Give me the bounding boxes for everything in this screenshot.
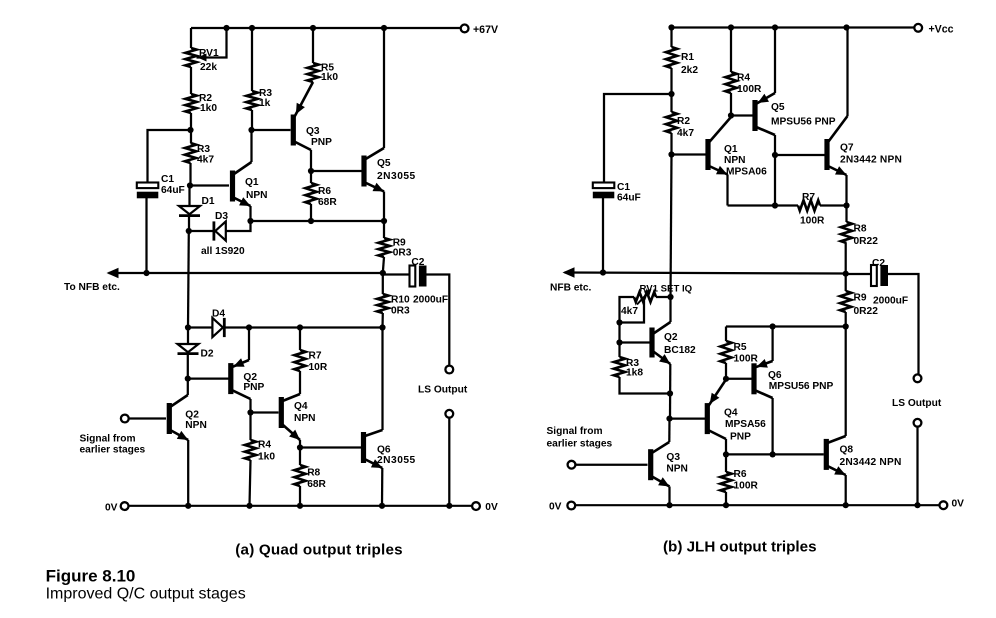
label 4k7 (RV1)	[621, 306, 638, 317]
RV1 wiper arrow (b)	[637, 289, 652, 305]
svg-text:LS Output: LS Output	[418, 385, 468, 396]
label 2N3442 NPN (Q8)	[840, 457, 902, 468]
terminal 0V right (a)	[472, 502, 480, 510]
node: Q7 emitter / R8 / R7	[843, 202, 849, 208]
label 10R	[309, 362, 328, 373]
wire: D2 cathode to Q2 base node	[187, 355, 189, 379]
wire: bus to D3 anode	[226, 221, 251, 231]
label RV1	[199, 48, 219, 59]
wire: R9 leads	[383, 221, 384, 273]
resistor RV1 (b)	[634, 292, 656, 302]
wire: R7 leads	[299, 328, 301, 395]
transistor Q2 (PNP, a)	[228, 358, 250, 399]
svg-text:4k7: 4k7	[621, 306, 638, 317]
label Q3	[306, 126, 320, 137]
wire: branch to C1 (b)	[604, 94, 672, 184]
wire: LS lower to 0V (a)	[448, 418, 450, 506]
transistor Q2 (BC182 NPN)	[649, 322, 670, 364]
label 1k0 (R4)	[258, 452, 275, 463]
node: Q4 base node (b)	[666, 416, 672, 422]
wire: Q3 collector to R6 node	[310, 150, 312, 171]
wire: RV1 wiper return	[620, 301, 645, 323]
node: Q4 collector / R6 / Q8 base	[723, 451, 729, 457]
wire: NFB line (b)	[565, 273, 846, 274]
resistor R9 (b)	[840, 291, 851, 312]
resistor R3 4k7	[185, 143, 196, 163]
node: R4 on rail	[728, 24, 734, 30]
resistor R3 (b)	[614, 357, 625, 377]
wire: D1 cathode to D3 node	[188, 217, 190, 231]
label To NFB etc.	[64, 282, 120, 293]
svg-text:R6: R6	[318, 186, 331, 197]
svg-text:C2: C2	[411, 257, 424, 268]
svg-text:R4: R4	[737, 73, 750, 84]
node: Q5 collector on rail	[381, 25, 387, 31]
svg-text:0V: 0V	[105, 503, 118, 514]
wire: driver bus y=205.5	[728, 204, 847, 206]
label C2 (a)	[411, 257, 424, 268]
svg-text:NPN: NPN	[185, 420, 207, 431]
resistor R3 1k	[246, 91, 257, 110]
wire: input Q2 collector join	[187, 379, 189, 395]
svg-text:1k0: 1k0	[258, 452, 275, 463]
wire: column to Q3 collector	[668, 419, 670, 442]
svg-text:NFB etc.: NFB etc.	[550, 283, 591, 294]
diode D4	[212, 318, 224, 337]
wire: input Q2 emitter to 0V	[187, 440, 189, 506]
svg-text:1k8: 1k8	[626, 368, 643, 379]
node: R5 on rail	[310, 25, 316, 31]
label 64uF (b)	[617, 193, 641, 204]
wire: upper output bus y=326.5 (b)	[726, 325, 846, 327]
wire: Q5 base lead (b)	[731, 114, 753, 116]
transistor Q4 (NPN, a)	[279, 394, 300, 440]
capacitor C1 (a)	[137, 183, 159, 199]
svg-text:(a) Quad output triples: (a) Quad output triples	[235, 541, 402, 558]
node: LS column on 0V (b)	[914, 502, 920, 508]
transistor Q7 (2N3442 NPN)	[824, 116, 847, 175]
transistor Q5 (MPSU56 PNP)	[752, 93, 775, 135]
svg-text:100R: 100R	[734, 481, 759, 492]
label earlier stages (a)	[80, 444, 146, 455]
capacitor C2 (a)	[410, 266, 427, 287]
node: Q4 base / R4 node	[247, 409, 253, 415]
wire: R8 leads	[299, 448, 301, 506]
svg-text:D1: D1	[202, 196, 215, 207]
svg-text:2k2: 2k2	[681, 65, 698, 76]
wire: Q5 base lead	[311, 170, 362, 172]
diode D2	[178, 344, 199, 354]
wire: Q2 PNP collector down	[249, 399, 251, 413]
wire: node A to R2, R2 to Q1 base	[670, 94, 672, 155]
label R5	[321, 63, 334, 74]
node: RV1 right on column	[667, 294, 673, 300]
wire: D3 cathode to junction	[189, 230, 214, 232]
node: D1/D3 junction	[186, 228, 192, 234]
label R7 (b)	[802, 192, 815, 203]
svg-text:0V: 0V	[549, 502, 562, 513]
label 0V left (b)	[549, 502, 562, 513]
wire: rail to R4 (b)	[730, 28, 732, 73]
svg-text:Q3: Q3	[666, 452, 680, 463]
wire: emitter bus y=221	[251, 220, 385, 222]
wire: Q6 base lead	[726, 378, 752, 380]
label C1 (b)	[617, 182, 630, 193]
resistor R5 (b)	[720, 341, 731, 363]
transistor Q6 (2N3055)	[361, 430, 383, 468]
svg-text:+Vcc: +Vcc	[929, 24, 954, 36]
wire: Q6 base lead	[300, 446, 361, 448]
wire: C2 left lead (a)	[383, 273, 410, 275]
label 0R22 (R9)	[854, 306, 879, 317]
wire: C1 to NFB (b)	[602, 198, 604, 273]
svg-text:D4: D4	[212, 309, 225, 320]
wire: left column D1 node to D4/D2 node	[187, 231, 190, 328]
node: R8 on 0V	[297, 503, 303, 509]
label R9	[393, 238, 406, 249]
svg-text:+67V: +67V	[473, 24, 498, 36]
wire: Q3 base lead	[252, 129, 291, 131]
wire: column RV1 to Q2 collector	[669, 297, 671, 322]
label R2 (b)	[677, 116, 690, 127]
resistor R2 (a)	[185, 94, 196, 113]
wire: branch to C1 top (a)	[148, 130, 191, 184]
wire: Q1 base lead	[190, 184, 229, 186]
node: Q3 emitter on 0V	[666, 502, 672, 508]
wire: 0V rail (a)	[129, 505, 472, 507]
svg-text:R7: R7	[309, 351, 322, 362]
transistor Q6 (MPSU56 PNP)	[751, 359, 772, 398]
svg-text:64uF: 64uF	[161, 185, 185, 196]
node: Q2 PNP emitter on bias line	[246, 324, 252, 330]
resistor R10	[377, 294, 388, 313]
label +Vcc	[929, 24, 954, 36]
node: Q7 base node	[772, 152, 778, 158]
svg-text:R2: R2	[677, 116, 690, 127]
arrow: To NFB	[107, 268, 119, 278]
node: Q6 emitter on bus	[770, 323, 776, 329]
label D1	[202, 196, 215, 207]
svg-text:100R: 100R	[734, 354, 759, 365]
label +67V	[473, 24, 498, 36]
wire: Q5 collector column to driver bus	[774, 155, 776, 206]
svg-text:R8: R8	[307, 468, 320, 479]
wire: R5 leads	[725, 327, 727, 379]
svg-text:To NFB etc.: To NFB etc.	[64, 282, 120, 293]
label R8 (b)	[854, 224, 867, 235]
label earlier stages (b)	[547, 438, 613, 449]
label Q5 (b)	[771, 102, 785, 113]
label 22k	[200, 62, 217, 73]
label NFB etc.	[550, 283, 591, 294]
label 4k7 (R2)	[677, 128, 694, 139]
label 64uF (a)	[161, 185, 185, 196]
svg-text:earlier stages: earlier stages	[547, 438, 613, 449]
node: R5 bottom / Q6 base / Q4 emitter	[723, 376, 729, 382]
wire: Q6 emitter to 0V	[381, 468, 384, 506]
svg-text:Signal from: Signal from	[547, 426, 603, 437]
label MPSA56	[725, 419, 766, 430]
svg-text:Q4: Q4	[724, 408, 738, 419]
label C2 (b)	[872, 258, 885, 269]
svg-text:1k: 1k	[259, 98, 271, 109]
label Signal from (a)	[80, 433, 136, 444]
svg-text:Improved Q/C output stages: Improved Q/C output stages	[46, 586, 246, 603]
label D4	[212, 309, 225, 320]
label Q3 (b)	[666, 452, 680, 463]
node: Q2 base node (b)	[616, 339, 622, 345]
wire: R6 leads	[725, 454, 727, 505]
label Figure 8.10	[46, 566, 136, 585]
RV1 wiper arrow	[198, 54, 207, 62]
svg-text:68R: 68R	[307, 479, 326, 490]
terminal: signal input (a)	[121, 415, 129, 423]
svg-text:R1: R1	[681, 52, 694, 63]
node: Q1 base node	[187, 182, 193, 188]
svg-text:2N3055: 2N3055	[377, 171, 416, 182]
label R3 (4k7)	[197, 144, 210, 155]
label R7 (a)	[309, 351, 322, 362]
label 0V right (b)	[952, 499, 965, 510]
label 0V left (a)	[105, 503, 118, 514]
label 0V right (a)	[485, 502, 498, 513]
label Q2 (PNP)	[243, 372, 257, 383]
wire: column to R3	[618, 343, 620, 358]
label R3 (1k)	[259, 88, 272, 99]
node: Q5 col on driver bus	[772, 202, 778, 208]
node: R3 1k on rail	[249, 25, 255, 31]
node: Q8 emitter on 0V	[843, 502, 849, 508]
svg-text:2000uF: 2000uF	[413, 295, 448, 306]
svg-text:NPN: NPN	[666, 464, 688, 475]
terminal +67V	[461, 25, 469, 33]
label R6	[318, 186, 331, 197]
terminal +Vcc	[914, 24, 922, 32]
wire: R6 leads	[310, 171, 312, 221]
node: NFB/R9/R10/C2 junction	[380, 270, 386, 276]
label Q7	[840, 143, 854, 154]
resistor R6 (b)	[720, 472, 731, 492]
node: R6 top / Q5 base	[308, 168, 314, 174]
svg-text:MPSU56 PNP: MPSU56 PNP	[769, 381, 834, 392]
svg-text:4k7: 4k7	[677, 128, 694, 139]
label R4 (b)	[737, 73, 750, 84]
node: D4/D2 junction	[185, 324, 191, 330]
wire: C2 to LS output column (a)	[427, 275, 450, 366]
svg-text:C2: C2	[872, 258, 885, 269]
svg-text:Q1: Q1	[245, 177, 259, 188]
svg-text:2N3442 NPN: 2N3442 NPN	[840, 457, 902, 468]
svg-text:R3: R3	[197, 144, 210, 155]
resistor R9	[378, 238, 389, 257]
node: LS column on 0V	[446, 503, 452, 509]
label NPN (b Q1)	[724, 155, 746, 166]
label 0R3 (R9)	[393, 248, 412, 259]
wire: Q2 PNP base lead	[188, 377, 229, 379]
svg-text:Q1: Q1	[724, 144, 738, 155]
svg-text:MPSA06: MPSA06	[726, 167, 767, 178]
wire: Q8 collector up	[845, 327, 847, 437]
label 2000uF (a)	[413, 295, 448, 306]
node: R6 bottom	[308, 218, 314, 224]
label NPN (Q1)	[246, 190, 268, 201]
wire: RV1 left lead	[620, 297, 635, 323]
label R9 (b)	[854, 293, 867, 304]
transistor Q3 (PNP)	[291, 82, 313, 150]
wire: RV1 to R2	[190, 67, 192, 94]
svg-text:4k7: 4k7	[197, 155, 214, 166]
node: input emitter on 0V	[185, 503, 191, 509]
wire: left column to Q2 base node	[618, 323, 620, 343]
wire: R10 leads	[381, 273, 384, 328]
svg-text:Q5: Q5	[771, 102, 785, 113]
label Q4 (b)	[724, 408, 738, 419]
wire: RV1 right lead to column	[656, 296, 671, 298]
label R3 (b)	[626, 358, 639, 369]
node: R1 on rail	[668, 24, 674, 30]
wire: R3 bottom to emitter line	[620, 377, 671, 394]
label 2000uF (b)	[873, 296, 908, 307]
svg-text:0V: 0V	[952, 499, 965, 510]
wire: Q1 emitter to bus	[249, 206, 251, 221]
svg-text:C1: C1	[617, 182, 630, 193]
wire: C2 to LS column (b)	[888, 274, 919, 374]
svg-text:PNP: PNP	[243, 382, 264, 393]
wire: Q4 base lead	[251, 411, 279, 413]
svg-text:R6: R6	[734, 469, 747, 480]
node: Q1 base node (b)	[668, 151, 674, 157]
wire: Q5 emitter up to rail	[774, 28, 776, 94]
wire: To-NFB line (a)	[109, 272, 383, 274]
label NPN (Q4)	[294, 413, 316, 424]
svg-text:D3: D3	[215, 211, 228, 222]
label R2	[199, 93, 212, 104]
label PNP (Q4)	[730, 432, 751, 443]
wire: D2 anode lead	[187, 328, 189, 345]
svg-text:MPSU56 PNP: MPSU56 PNP	[771, 117, 836, 128]
svg-text:2N3055: 2N3055	[377, 455, 416, 466]
node: Q4 emitter / R8 / Q6 base	[297, 444, 303, 450]
svg-text:Q4: Q4	[294, 401, 308, 412]
resistor R7 (b)	[798, 200, 820, 210]
node: R1/R2/C1 node	[668, 91, 674, 97]
resistor R6 (a)	[305, 183, 316, 204]
label 68R (R8)	[307, 479, 326, 490]
node: Q5 emitter / R9 node	[381, 218, 387, 224]
wire: R9 leads	[845, 274, 847, 327]
wire: Q6 emitter up	[771, 327, 773, 362]
node: R2/R3 junction to C1	[187, 127, 193, 133]
capacitor C2 (b)	[871, 265, 888, 286]
transistor Q4 (MPSA56 PNP)	[705, 380, 726, 440]
label R6 (b)	[734, 469, 747, 480]
resistor R4 (a)	[245, 440, 256, 460]
wire: Q5 emitter down	[383, 192, 385, 222]
node: C1 on NFB line (b)	[600, 269, 606, 275]
arrow: NFB (b)	[563, 267, 575, 277]
resistor R1	[666, 47, 677, 68]
label 1k0 (R2)	[200, 103, 217, 114]
svg-text:LS Output: LS Output	[892, 398, 942, 409]
wire: Q4 collector down	[725, 439, 727, 454]
svg-text:earlier stages: earlier stages	[80, 444, 146, 455]
wire: Q1 collector column	[250, 130, 252, 162]
label Signal from (b)	[547, 426, 603, 437]
wire: Q8 emitter to 0V	[845, 475, 847, 505]
wire: Q1 emitter down (b)	[726, 175, 728, 206]
svg-text:0R22: 0R22	[854, 306, 879, 317]
wire: input base lead	[129, 417, 166, 419]
svg-text:10R: 10R	[309, 362, 328, 373]
wire: Q2 PNP emitter up	[248, 328, 250, 361]
node: wiper return on left column	[616, 319, 622, 325]
wire: rail to R5	[312, 28, 314, 63]
label R8 (a)	[307, 468, 320, 479]
label MPSU56 PNP (Q5)	[771, 117, 836, 128]
svg-text:Q7: Q7	[840, 143, 854, 154]
transistor Q3 (input NPN, b)	[648, 442, 669, 487]
terminal LS lower (b)	[914, 419, 922, 427]
svg-text:PNP: PNP	[311, 137, 332, 148]
svg-text:D2: D2	[201, 349, 214, 360]
wire: R3 to Q1 base node	[189, 163, 191, 186]
svg-text:Q2: Q2	[185, 410, 199, 421]
label PNP (Q2)	[243, 382, 264, 393]
wire: +67V supply rail (a)	[191, 27, 461, 29]
transistor Q1 (b, MPSA06 NPN)	[705, 117, 731, 175]
diode D1	[179, 206, 200, 216]
caption (b)	[663, 538, 817, 555]
label 1k	[259, 98, 271, 109]
resistor RV1	[185, 48, 196, 67]
label all 1S920	[201, 246, 245, 257]
terminal 0V left (a)	[121, 502, 129, 510]
svg-text:2N3442 NPN: 2N3442 NPN	[840, 155, 902, 166]
wire: R3 1k to Q3 base node	[251, 110, 253, 130]
label R10	[391, 295, 410, 306]
wire: Q3 emitter to 0V	[668, 487, 670, 506]
diode D3	[214, 221, 226, 240]
wire: D4 bias line y=327.5	[188, 326, 383, 328]
wire: RV1 wiper to rail	[197, 28, 227, 58]
svg-text:1k0: 1k0	[321, 72, 338, 83]
svg-text:Signal from: Signal from	[80, 433, 136, 444]
wire: Q7 collector up to rail	[846, 28, 848, 117]
node: R9 bottom / output stage top	[843, 323, 849, 329]
wire: Q2 base lead (b)	[620, 341, 650, 343]
svg-text:RV1: RV1	[199, 48, 219, 59]
node: Q6 emitter on 0V	[379, 503, 385, 509]
label MPSA06	[726, 167, 767, 178]
transistor Q8 (2N3442 NPN)	[824, 436, 846, 475]
wire: +Vcc supply rail (b)	[672, 26, 915, 28]
label NPN (Q3)	[666, 464, 688, 475]
wire: Q6 collector down	[771, 398, 773, 454]
svg-text:R9: R9	[854, 293, 867, 304]
svg-text:PNP: PNP	[730, 432, 751, 443]
wire: 0V rail (b)	[575, 504, 939, 506]
node: R3/emitter junction	[667, 390, 673, 396]
terminal 0V left (b)	[567, 502, 575, 510]
node: R4 on 0V	[246, 503, 252, 509]
label 1k0 (R5)	[321, 72, 338, 83]
label C1 (a)	[161, 174, 174, 185]
svg-text:R5: R5	[734, 342, 747, 353]
node: Q1 emitter joins bus	[247, 218, 253, 224]
svg-text:R8: R8	[854, 224, 867, 235]
node: RV1 wiper on rail	[223, 25, 229, 31]
svg-text:Q6: Q6	[377, 445, 391, 456]
